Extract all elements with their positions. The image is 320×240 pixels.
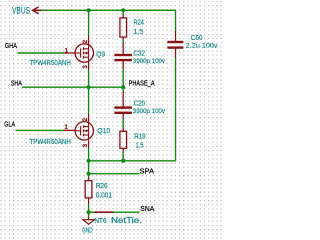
- svg-text:SPA: SPA: [140, 169, 155, 176]
- svg-text:SHA: SHA: [11, 81, 22, 88]
- svg-text:C32: C32: [133, 49, 145, 58]
- svg-text:0.001: 0.001: [96, 190, 112, 199]
- svg-text:VBUS: VBUS: [12, 5, 30, 15]
- svg-text:Q10: Q10: [97, 126, 110, 135]
- svg-text:C60: C60: [191, 33, 203, 42]
- svg-text:R24: R24: [134, 18, 144, 27]
- svg-text:1.5: 1.5: [135, 140, 143, 149]
- svg-text:C20: C20: [134, 99, 145, 108]
- svg-text:NetTie.: NetTie.: [111, 216, 142, 225]
- svg-text:Q9: Q9: [96, 49, 105, 58]
- svg-text:3900p 100v: 3900p 100v: [133, 58, 166, 65]
- svg-text:3900p 100v: 3900p 100v: [133, 108, 166, 115]
- svg-text:NT6: NT6: [94, 216, 106, 225]
- svg-text:TPW4R50ANH: TPW4R50ANH: [30, 137, 71, 146]
- svg-text:GHA: GHA: [5, 43, 17, 50]
- svg-text:SNA: SNA: [140, 206, 154, 213]
- svg-text:PHASE_A: PHASE_A: [129, 81, 155, 88]
- svg-text:1.5: 1.5: [134, 27, 144, 36]
- svg-text:GLA: GLA: [4, 122, 15, 129]
- svg-text:R26: R26: [96, 181, 108, 190]
- svg-text:GND: GND: [82, 226, 92, 235]
- svg-text:TPW4R50ANH: TPW4R50ANH: [30, 58, 71, 67]
- svg-text:2.2u 100v: 2.2u 100v: [186, 43, 219, 50]
- svg-text:R19: R19: [134, 131, 145, 140]
